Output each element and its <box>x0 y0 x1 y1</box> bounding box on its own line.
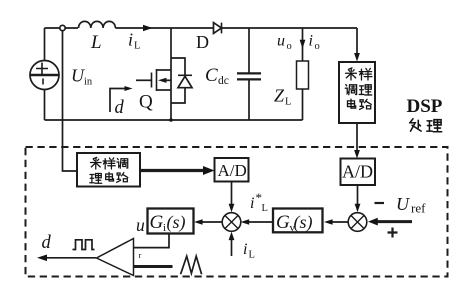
plus sign below U_ref arrow <box>388 228 398 238</box>
svg-text:i: i <box>128 30 133 50</box>
svg-text:DSP: DSP <box>407 96 443 117</box>
body diode cathode bar <box>178 74 192 76</box>
svg-text:U: U <box>71 66 85 86</box>
svg-text:Z: Z <box>274 86 285 106</box>
wire left source lead top <box>44 28 46 61</box>
svg-text:A/D: A/D <box>218 161 247 180</box>
voltage source plus sign <box>36 63 48 75</box>
body diode bracket top <box>171 58 185 75</box>
gate drive bent arrow <box>110 89 128 113</box>
MOSFET Q source stub mid <box>164 79 171 81</box>
arrowhead into G_i right <box>194 219 203 225</box>
svg-text:U: U <box>396 194 410 214</box>
sampling box right text diao li <box>345 85 356 95</box>
wire X2 to G_v <box>329 221 349 223</box>
sampling box left text line2 li dian lu <box>90 174 102 184</box>
output arrowhead d <box>37 255 47 262</box>
svg-text:G: G <box>276 212 290 233</box>
wire top rail to sampling circuit bend <box>356 28 358 57</box>
arrowhead into G_v right <box>324 219 333 225</box>
arrowhead into A/D right <box>354 150 360 159</box>
wire A/D left down to multiplier <box>231 182 233 209</box>
inductor L <box>79 21 116 28</box>
G_v(s) box <box>273 209 323 233</box>
arrowhead i_L up <box>229 232 235 241</box>
svg-text:d: d <box>115 98 125 118</box>
MOSFET Q channel bar <box>156 69 158 91</box>
comparator output wire d <box>46 257 96 259</box>
MOSFET Q drain stub <box>157 69 172 71</box>
thick arrowhead into A/D left <box>203 166 215 175</box>
arrow i_L on rail <box>143 25 153 31</box>
thick arrow sampling box to A/D left <box>140 169 205 172</box>
arrowhead into multiplier X1 <box>229 204 235 213</box>
load Z_L branch bottom <box>302 89 304 120</box>
wire top rail left segment <box>45 27 79 29</box>
svg-text:i: i <box>250 195 254 212</box>
svg-text:r: r <box>139 250 142 260</box>
multiplier X2 circle <box>348 213 367 232</box>
thick U_ref arrowhead <box>368 218 378 226</box>
svg-text:dc: dc <box>218 75 229 87</box>
sampling box right (cai-yang-tiao-li-dian-lu) <box>339 62 375 123</box>
sampling box left text line1 cai yang diao <box>91 157 102 169</box>
svg-text:L: L <box>134 41 140 52</box>
wire X1 to G_i <box>199 221 223 223</box>
svg-text:i: i <box>309 33 313 50</box>
svg-text:o: o <box>315 41 320 52</box>
arrowhead into multiplier X2 <box>355 204 361 213</box>
svg-text:(s): (s) <box>294 212 313 233</box>
MOSFET Q gate lead <box>136 79 151 81</box>
capacitor C_dc branch top <box>248 28 250 73</box>
comparator lower input thick wire <box>134 265 173 268</box>
svg-text:Q: Q <box>139 92 153 113</box>
wire current-sense line down to sampling box <box>63 31 78 171</box>
dashed DSP boundary box <box>26 147 448 277</box>
sampling box right text dian lu <box>347 99 355 108</box>
wire bottom rail <box>45 119 303 121</box>
body diode bracket bottom <box>171 88 185 103</box>
G_i(s) box <box>148 209 194 234</box>
svg-text:L: L <box>90 32 102 53</box>
svg-text:L: L <box>249 250 255 261</box>
sampling box left (2-line) <box>77 153 140 187</box>
arrow i_o on Z_L branch <box>300 40 306 49</box>
svg-text:(s): (s) <box>167 212 186 233</box>
svg-text:in: in <box>84 77 93 88</box>
comparator triangle <box>97 239 134 276</box>
wire top rail right segment <box>222 27 358 29</box>
svg-text:D: D <box>196 32 209 52</box>
wire sampling box to A/D right <box>356 123 358 155</box>
gate drive arrowhead <box>125 86 133 91</box>
svg-text:G: G <box>150 212 164 233</box>
svg-text:L: L <box>262 203 268 214</box>
node circle on top rail <box>60 25 65 30</box>
svg-text:d: d <box>42 233 52 253</box>
triangle carrier wave glyph M <box>181 256 202 274</box>
thick U_ref arrow line <box>376 220 412 223</box>
voltage source minus tick <box>42 79 44 85</box>
multiplier X1 cross <box>225 216 238 229</box>
load Z_L rectangle <box>297 61 309 89</box>
body diode triangle <box>178 76 192 87</box>
MOSFET Q source stub bottom <box>157 89 172 91</box>
diode D triangle <box>214 23 222 34</box>
load Z_L branch top <box>302 28 304 61</box>
A/D box right <box>341 159 376 186</box>
multiplier X2 cross <box>351 216 364 229</box>
voltage source U_in circle <box>30 61 59 90</box>
svg-text:i: i <box>243 241 247 258</box>
MOSFET Q source arrow <box>158 78 167 83</box>
up arrow i_L into X1 <box>231 236 233 256</box>
svg-text:C: C <box>205 65 218 86</box>
MOSFET Q gate bar <box>151 73 153 88</box>
arrowhead into X1 right <box>241 219 250 225</box>
svg-text:u: u <box>136 215 145 235</box>
capacitor C_dc branch bottom <box>248 80 250 121</box>
multiplier X1 circle <box>222 213 241 232</box>
voltage source diameter bar <box>30 74 59 76</box>
wire G_i output to comparator <box>134 234 169 248</box>
capacitor C_dc plates <box>237 73 261 79</box>
label chu li (DSP processing) <box>410 119 421 131</box>
diode D cathode bar <box>221 23 223 34</box>
minus sign near X2 <box>375 202 385 204</box>
wire G_v to X1 <box>245 221 273 223</box>
wire source lead bottom <box>44 90 46 121</box>
svg-text:u: u <box>277 33 285 50</box>
A/D box left <box>215 158 249 182</box>
junction drain branch top <box>170 28 172 120</box>
svg-text:L: L <box>285 97 291 108</box>
svg-text:o: o <box>287 41 292 52</box>
wire A/D right down to multiplier X2 <box>357 185 359 208</box>
svg-text:A/D: A/D <box>342 162 373 182</box>
PWM pulse glyph <box>73 240 95 250</box>
wire top rail middle segment <box>115 27 213 29</box>
sampling box right text cai yang <box>346 68 357 80</box>
junction dot bottom rail <box>169 118 173 122</box>
svg-text:ref: ref <box>411 201 426 216</box>
arrowhead into right sampling box <box>354 53 360 62</box>
